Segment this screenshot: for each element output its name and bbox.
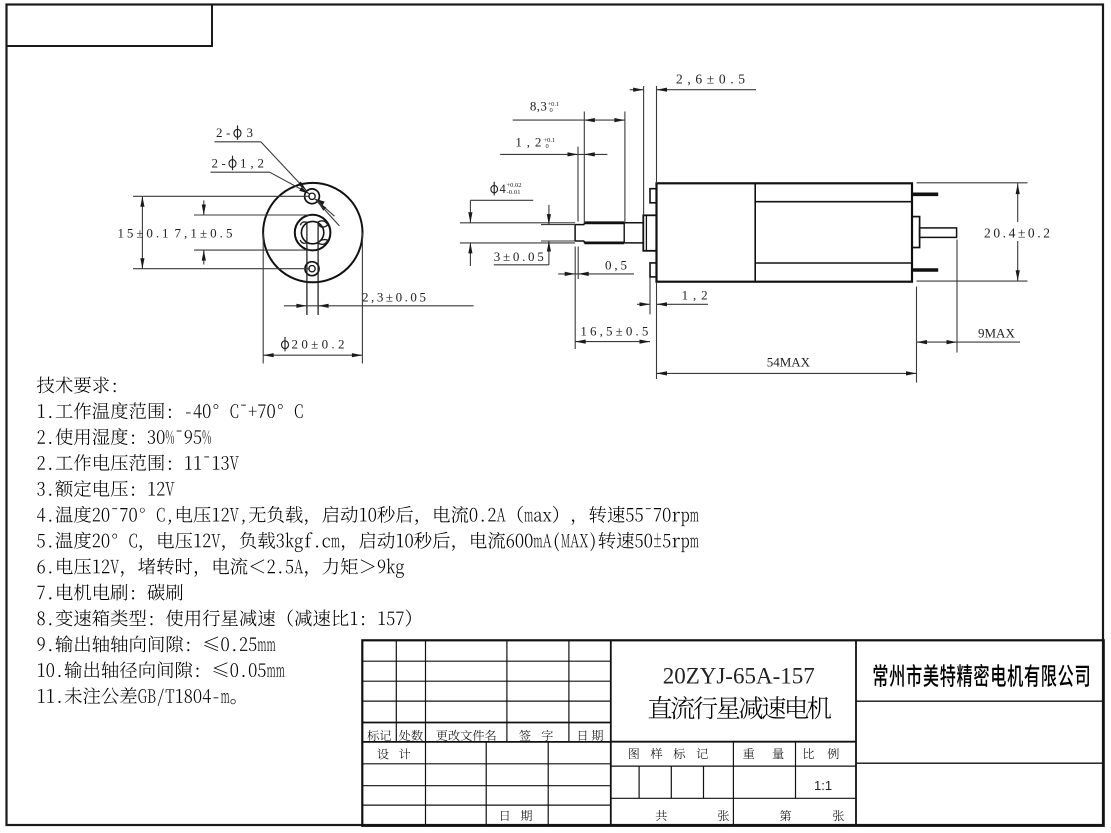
dim 15±0.1 dimension line: [141, 196, 143, 268]
front view: motor end face circle phi20: [263, 183, 362, 282]
tech requirements line 9: [37, 609, 410, 626]
leader opposite arrows: [314, 199, 324, 206]
tech requirements line 7: [37, 558, 404, 578]
dim phi4 shaft extension lines left: [460, 222, 575, 224]
front view: shaft cross-section crescent top-right: [318, 221, 327, 227]
tech requirements line 2: [38, 428, 211, 445]
dim text phi4 +0.02/-0.01: [491, 185, 498, 192]
dim 54MAX extension lines: [656, 283, 658, 379]
front view: output shaft circle phi4: [301, 221, 323, 243]
dim 1.2 tab extension line: [649, 277, 651, 314]
dim phi4 leader + arrows: [470, 199, 533, 201]
svg-text:16,5±0.5: 16,5±0.5: [580, 323, 651, 338]
tech requirements line 12: [38, 687, 236, 706]
svg-text:20.4±0.2: 20.4±0.2: [984, 226, 1053, 241]
side view: boss front ring line: [645, 215, 647, 251]
svg-text:20±0.2: 20±0.2: [292, 337, 348, 352]
tech requirements line 5: [37, 506, 699, 526]
side view: motor can bottom line: [755, 262, 912, 264]
dim phi20 dimension line: [263, 354, 362, 356]
svg-text:54MAX: 54MAX: [767, 354, 811, 369]
dim 1.2 extension line: [577, 147, 579, 222]
svg-text:1,2: 1,2: [682, 288, 713, 303]
tech requirements line 1: [38, 402, 302, 419]
tech requirements line 4: [37, 480, 174, 497]
front view: top mounting hole phi1.2: [309, 193, 315, 199]
front view: shaft cross-section crescent top-left: [300, 222, 306, 225]
title block label 更改文件名: [436, 730, 496, 741]
svg-text:-0.01: -0.01: [507, 189, 521, 196]
title block middle/left divider: [610, 640, 612, 826]
side view: motor terminal bottom: [912, 268, 938, 272]
dim 3±0.05 leader + arrows: [494, 264, 549, 266]
dim 15±0.1 extension line bottom: [133, 268, 310, 270]
front view: shaft cross-section crescent bottom-left: [300, 240, 306, 243]
tech requirements line 3: [38, 454, 239, 471]
dim 15±0.1 extension line top: [133, 195, 310, 197]
svg-text:15±0.1: 15±0.1: [118, 226, 172, 241]
side view: gearbox/motor joint line: [754, 183, 756, 281]
side view: front mounting tab top: [650, 189, 657, 203]
svg-text:3: 3: [247, 125, 254, 140]
front view: bottom mounting hole phi1.2: [309, 266, 315, 272]
dim 1.2 tab dimension line + arrows: [637, 303, 650, 305]
dim 2.6±0.5 extension lines: [643, 86, 645, 215]
dim 3±0.05 flat extension lines: [541, 224, 575, 226]
front view: shaft flat left (2.3 across) + extension down: [306, 222, 308, 315]
tech requirements line 10: [37, 635, 275, 652]
side view: shaft step verticals: [583, 223, 585, 225]
side view: front mounting tab bottom: [650, 263, 657, 277]
title block label 标记: [367, 730, 391, 741]
dim 8.3 dimension line + arrows: [513, 119, 625, 121]
title block left grid verticals (lower): [425, 742, 427, 826]
side view: shaft rear section bottom: [624, 242, 643, 244]
company name: [874, 664, 1089, 687]
side view: shaft phi4 precision section (thick) bottom: [584, 241, 624, 244]
svg-text:2-: 2-: [216, 125, 234, 140]
top-left header box: [7, 5, 213, 47]
title block middle grid: [611, 741, 856, 743]
dim 20.4±0.2 dimension line + arrows: [1017, 183, 1019, 222]
svg-text:1,2: 1,2: [515, 135, 546, 150]
dim 20.4±0.2 extension lines: [917, 182, 1028, 184]
dim 16.5±0.5 dimension line + arrows: [575, 341, 650, 343]
front view: shaft flat right + extension down: [317, 222, 319, 315]
dim 9MAX extension line: [956, 240, 958, 353]
svg-text:2-: 2-: [212, 156, 230, 171]
title block left grid verticals (upper): [395, 640, 397, 742]
front view: bottom mounting hole phi3: [305, 262, 319, 276]
svg-text:3±0.05: 3±0.05: [494, 249, 547, 264]
svg-text:1,2: 1,2: [240, 156, 268, 171]
svg-text:7,1±0.5: 7,1±0.5: [175, 226, 236, 241]
title block outer border: [362, 640, 1103, 826]
tech requirements line 8: [37, 584, 182, 601]
dim text phi20±0.2: [282, 341, 289, 349]
front view: shaft cross-section crescent bottom-right: [318, 240, 327, 245]
dim phi20 extension line left: [262, 233, 264, 364]
svg-text:2,3±0.05: 2,3±0.05: [362, 289, 429, 304]
dim 1.2 dimension line + arrows: [500, 153, 607, 155]
dim 8.3 extension lines: [583, 112, 585, 223]
title block right divider: [855, 640, 857, 826]
svg-text:+0.02: +0.02: [507, 182, 522, 189]
side view: shaft section divider: [623, 223, 625, 243]
side view: shaft rear section top: [624, 222, 643, 224]
svg-text:0: 0: [546, 143, 549, 150]
tech requirements line 0: [37, 377, 116, 394]
dim 9MAX dimension line + arrows: [917, 341, 1021, 343]
svg-text:8,3: 8,3: [530, 98, 547, 113]
svg-text:0: 0: [550, 107, 553, 114]
front view: center boss circle phi7.1: [295, 215, 331, 251]
drawing title 直流行星减速电机: [649, 696, 831, 719]
dim 54MAX dimension line + arrows: [657, 372, 917, 374]
dim 7.1±0.5 dimension line + arrows: [203, 201, 205, 216]
dim 0.5 extension lines: [574, 247, 576, 350]
dim 7.1±0.5 extension line bottom (boss bottom): [194, 249, 310, 251]
dim 2.6±0.5 dimension line + arrows: [630, 89, 644, 91]
side view: motor terminal top: [912, 193, 938, 197]
side view: rear shaft stub: [920, 228, 957, 238]
company cell line: [856, 700, 1104, 702]
dim phi20 extension line right: [361, 233, 363, 364]
svg-text:1:1: 1:1: [814, 778, 832, 793]
front view: top mounting hole phi3: [305, 189, 320, 204]
title block label 处数: [399, 730, 423, 741]
dim 0.5 dimension line + arrows: [558, 273, 634, 275]
svg-text:4: 4: [500, 182, 507, 196]
dim 2.3±0.05 dimension line: [284, 305, 474, 307]
side view: front bearing boss phi7.1: [643, 215, 656, 251]
svg-text:20ZYJ-65A-157: 20ZYJ-65A-157: [663, 664, 815, 689]
svg-text:0,5: 0,5: [605, 257, 630, 272]
side view: motor can top line: [755, 201, 912, 203]
side view: output shaft tip (3mm flats section): [574, 225, 576, 241]
title block left grid horizontals: [362, 660, 611, 662]
side view: shaft phi4 precision section (thick) top: [584, 221, 624, 224]
dim 7.1±0.5 extension line top (boss top): [194, 214, 310, 216]
svg-text:2,6±0.5: 2,6±0.5: [676, 72, 750, 87]
tech requirements line 11: [38, 661, 284, 678]
svg-text:9MAX: 9MAX: [978, 325, 1015, 340]
side view: gearbox+motor body outline: [657, 183, 913, 281]
tech requirements line 6: [37, 532, 698, 552]
side view: rear bearing boss: [912, 217, 920, 248]
